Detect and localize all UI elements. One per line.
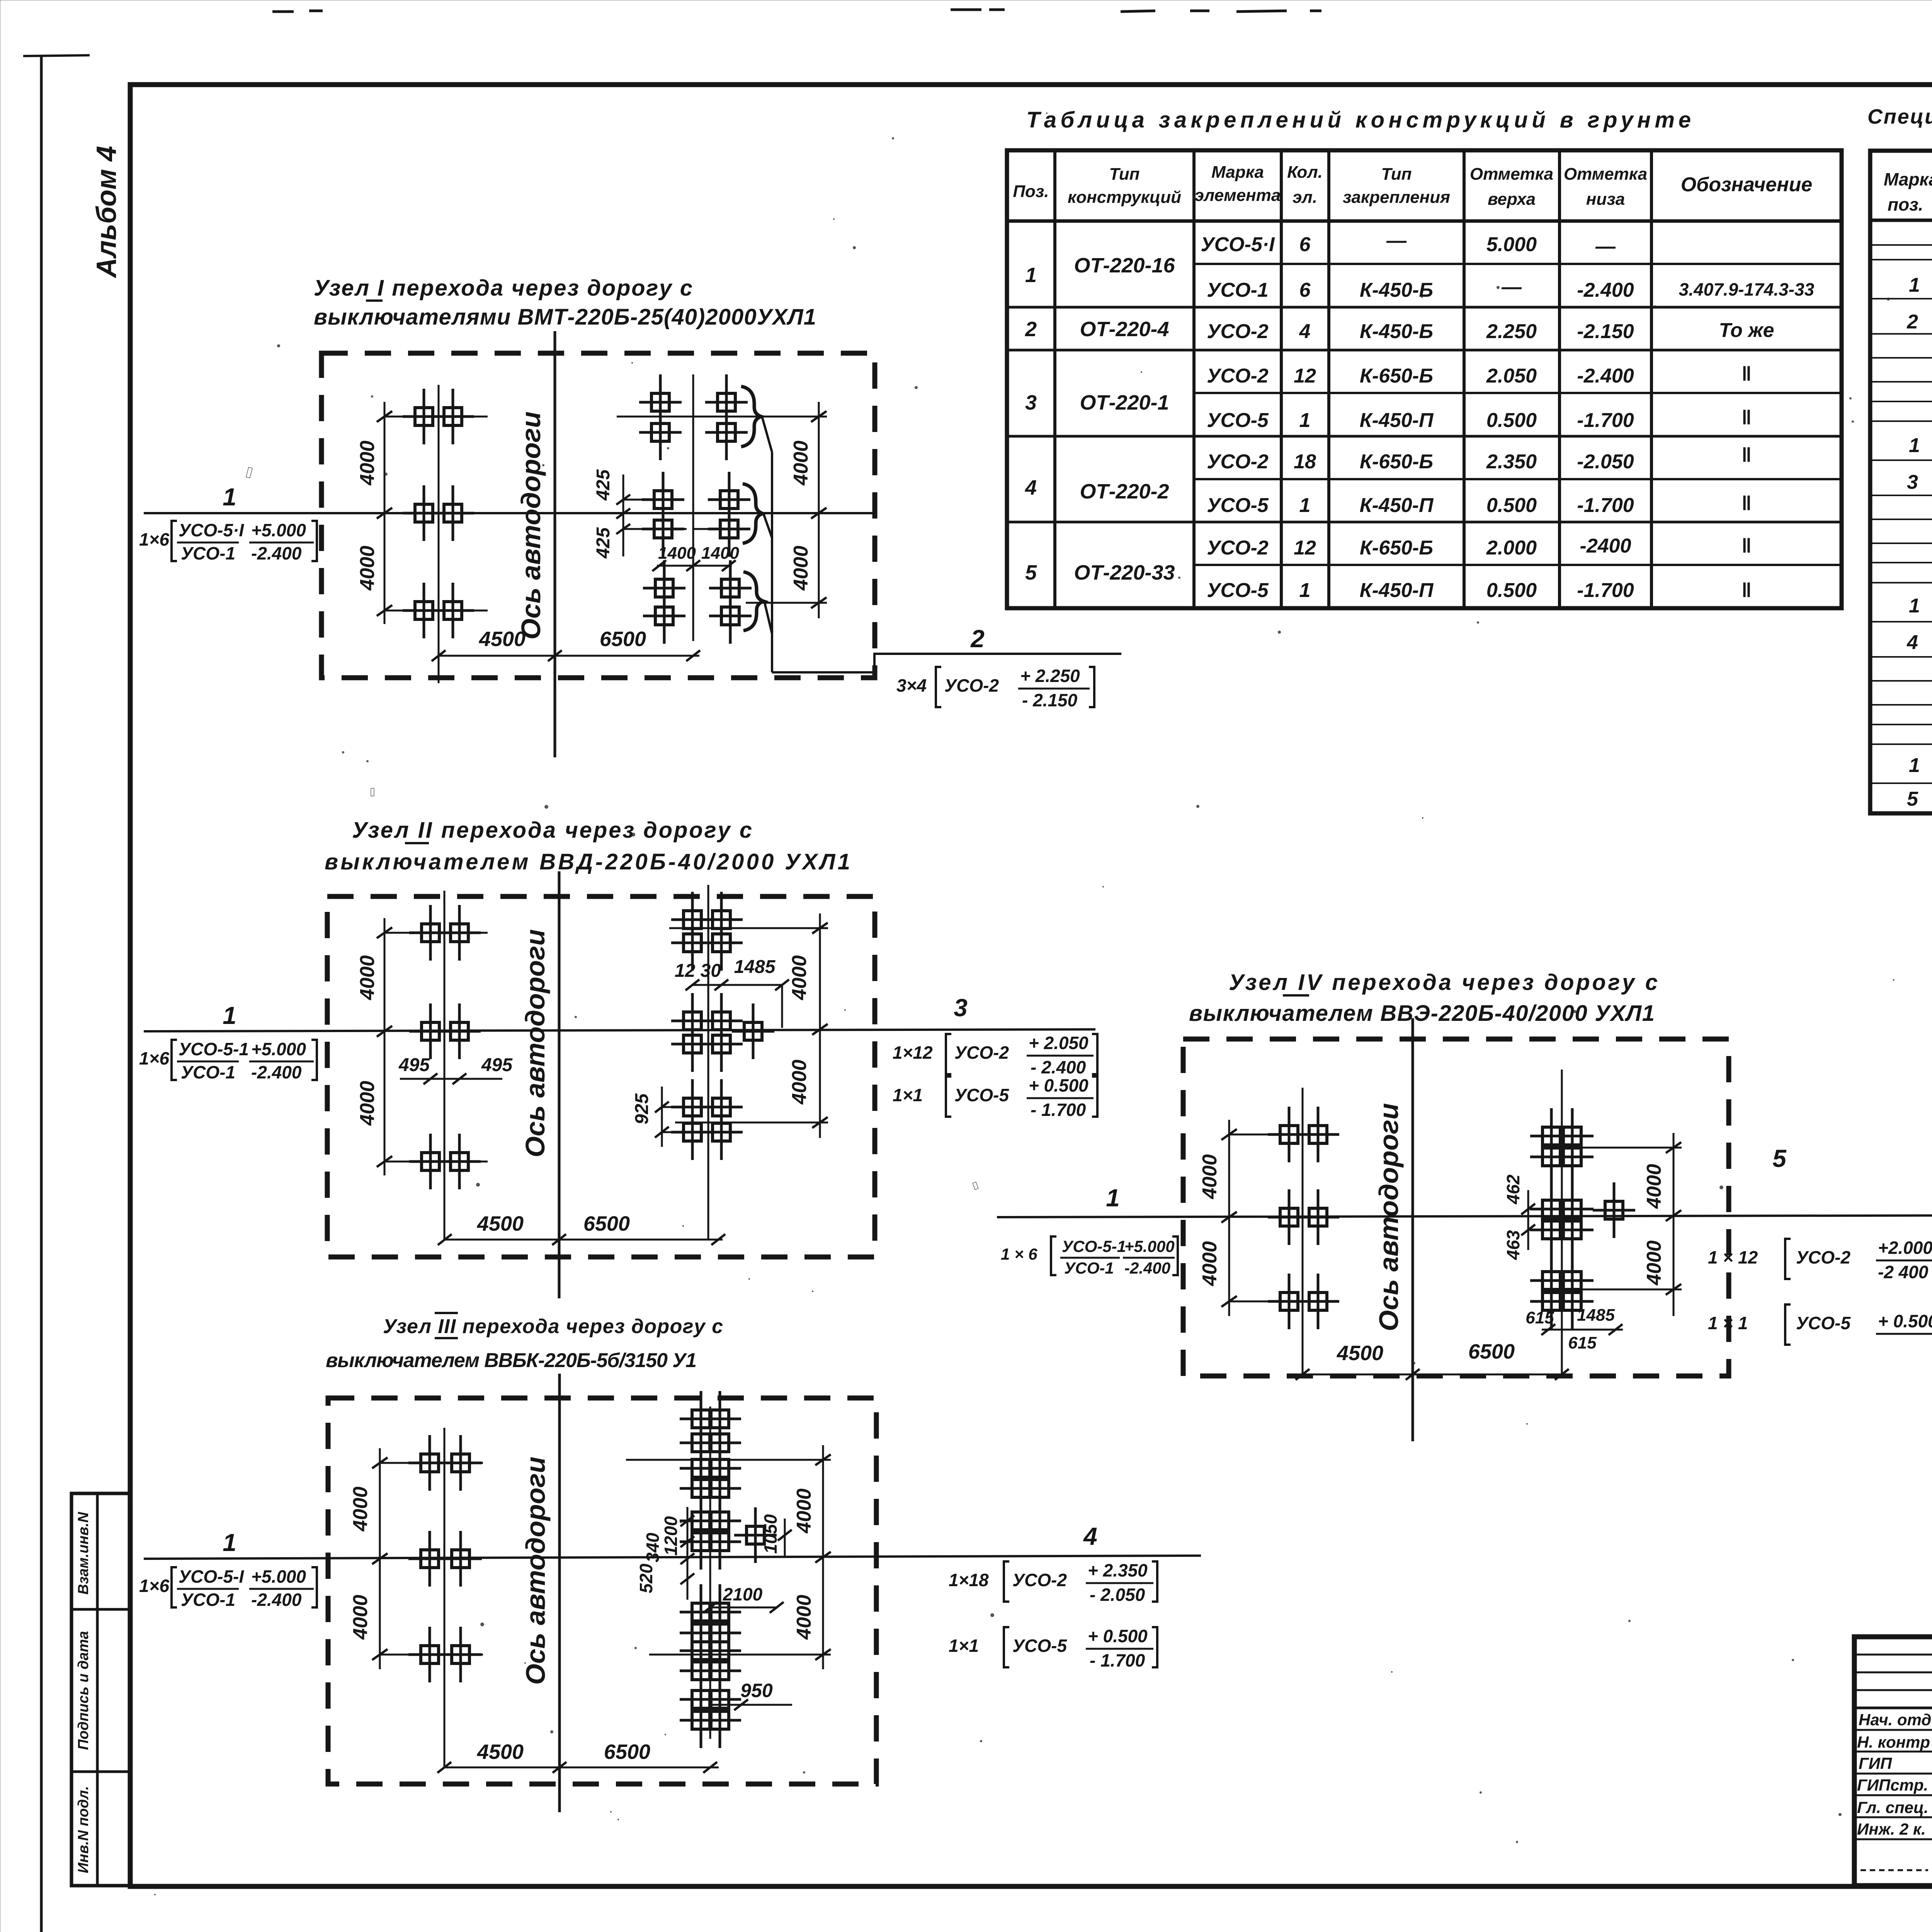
svg-text:4000: 4000 [356, 955, 379, 1000]
svg-text:4000: 4000 [1199, 1154, 1221, 1199]
svg-text:-2.400: -2.400 [1577, 365, 1634, 387]
svg-text:-2.400: -2.400 [251, 543, 302, 563]
specification section Узел II [1907, 390, 1932, 493]
node IV dim 462/463 ticks [1521, 1204, 1535, 1235]
svg-text:615: 615 [1526, 1308, 1554, 1327]
svg-text:УСО-2: УСО-2 [1207, 320, 1269, 343]
node II callout formula 1x12 [893, 1033, 1097, 1077]
svg-text:1×1: 1×1 [893, 1085, 923, 1105]
svg-text:‖: ‖ [1742, 444, 1752, 466]
node II dim 1230/1485 drop line [781, 985, 783, 1028]
svg-text:ОТ-220-2: ОТ-220-2 [1080, 480, 1169, 503]
svg-text:- 2.050: - 2.050 [1090, 1585, 1145, 1605]
node II single foundation on axis [732, 1003, 774, 1059]
fixing table headers [1013, 163, 1812, 209]
svg-text:низа: низа [1586, 190, 1625, 209]
node II right foundations bottom cluster [671, 1079, 714, 1135]
node II bottom dim ticks [438, 1234, 725, 1245]
node III road axis line [558, 1374, 561, 1812]
svg-text:Инв.N подл.: Инв.N подл. [75, 1786, 92, 1873]
svg-text:4000: 4000 [788, 955, 811, 1000]
node IV left dim ext bottom [1229, 1301, 1332, 1303]
node IV right dim ext top [1547, 1147, 1682, 1149]
node III left dim ext top [380, 1462, 483, 1464]
svg-text:Узел II перехода через дорогу: Узел II перехода через дорогу с [352, 818, 752, 843]
svg-text:УСО-2: УСО-2 [1207, 365, 1269, 387]
node II left dim line 4000/4000 [384, 918, 386, 1175]
title block name row lines [1854, 1730, 1932, 1839]
svg-text:- 1.700: - 1.700 [1031, 1100, 1086, 1120]
svg-text:4: 4 [1025, 476, 1037, 499]
svg-text:425: 425 [593, 527, 614, 559]
svg-text:3×4: 3×4 [896, 675, 927, 696]
svg-text:эл.: эл. [1293, 188, 1317, 207]
fixing table full row lines [1007, 307, 1842, 522]
svg-text:УСО-5: УСО-5 [1207, 579, 1269, 602]
node I dim 425/425 vertical [622, 474, 624, 556]
svg-text:Поз.: Поз. [1013, 182, 1049, 201]
svg-text:1 × 12: 1 × 12 [1708, 1247, 1758, 1267]
svg-text:Узел I перехода через дорогу: Узел I перехода через дорогу с [314, 276, 692, 301]
svg-text:12: 12 [1294, 537, 1316, 559]
svg-text:4000: 4000 [790, 546, 812, 591]
svg-text:1×6: 1×6 [139, 1576, 169, 1596]
svg-text:выключателем ВВБК-220Б-5б/315: выключателем ВВБК-220Б-5б/3150 У1 [326, 1349, 697, 1372]
svg-text:1×6: 1×6 [139, 529, 169, 549]
node III dim 2100 line [710, 1607, 777, 1609]
node III right dim ext bottom [649, 1654, 831, 1656]
strip divider h2 [71, 1770, 130, 1773]
svg-text:-2.400: -2.400 [251, 1062, 302, 1082]
svg-text:+5.000: +5.000 [1124, 1237, 1175, 1255]
node IV callout formula 1x1 [1708, 1304, 1932, 1345]
node II dim 495 495 line [400, 1078, 502, 1080]
node III bottom dim line 4500/6500 [444, 1767, 719, 1769]
node III right dim ticks [815, 1454, 831, 1660]
svg-text:1×6: 1×6 [139, 1048, 169, 1068]
svg-text:4500: 4500 [477, 1740, 524, 1764]
svg-text:-1.700: -1.700 [1577, 579, 1634, 602]
fixing table Поз column values [1025, 264, 1037, 584]
svg-text:4: 4 [1083, 1522, 1097, 1550]
node IV horizontal axis [997, 1215, 1932, 1217]
node II callout formula 1x1 [893, 1075, 1097, 1120]
node I dashed boundary [321, 353, 875, 678]
svg-text:К-450-Б: К-450-Б [1360, 320, 1433, 343]
node IV right foundation group vertical [1561, 1070, 1563, 1376]
node II left callout formula 1x6 [139, 1039, 317, 1082]
svg-text:2: 2 [1025, 318, 1037, 341]
svg-text:ОТ-220-1: ОТ-220-1 [1080, 391, 1169, 414]
svg-text:УСО-1: УСО-1 [181, 1062, 235, 1082]
node III single foundation 1050 [734, 1507, 777, 1563]
svg-text:2.250: 2.250 [1486, 320, 1537, 343]
svg-text:462: 462 [1503, 1174, 1523, 1204]
node I left dim ticks [377, 411, 392, 616]
svg-text:‖: ‖ [1742, 363, 1752, 385]
node IV numeral underline [1283, 994, 1309, 997]
svg-text:4000: 4000 [790, 440, 812, 486]
node IV left callout formula 1x6 [1001, 1236, 1178, 1277]
svg-text:1: 1 [1106, 1184, 1120, 1212]
fixing table Отметка верха values [1486, 233, 1537, 602]
svg-text:К-650-Б: К-650-Б [1360, 537, 1433, 559]
svg-text:Таблица закреплений конструк: Таблица закреплений конструкций в грунте [1026, 107, 1691, 133]
svg-text:К-650-Б: К-650-Б [1360, 451, 1433, 473]
svg-text:520: 520 [636, 1563, 656, 1593]
svg-text:выключателем ВВЭ-220Б-40/2000: выключателем ВВЭ-220Б-40/2000 УХЛ1 [1189, 1001, 1655, 1026]
svg-text:К-450-П: К-450-П [1360, 409, 1434, 432]
svg-text:ГИП: ГИП [1859, 1754, 1892, 1772]
node II bottom dim line 4500/6500 [445, 1239, 723, 1241]
svg-text:К-450-Б: К-450-Б [1360, 279, 1433, 301]
svg-text:УСО-2: УСО-2 [1012, 1570, 1067, 1590]
node I right foundation group vertical [692, 374, 694, 641]
svg-text:УСО-5·I: УСО-5·I [179, 520, 244, 540]
svg-text:1×1: 1×1 [949, 1636, 979, 1656]
node IV dim 615/1485/615 line [1542, 1329, 1623, 1331]
svg-text:—: — [1386, 230, 1407, 252]
svg-text:Марка,: Марка, [1884, 169, 1932, 189]
svg-text:-2 400: -2 400 [1878, 1262, 1929, 1282]
node II horizontal axis [144, 1029, 1095, 1031]
node II road axis line [558, 871, 561, 1298]
svg-text:‖: ‖ [1742, 535, 1752, 557]
node IV left foundation group vertical [1302, 1088, 1304, 1374]
node II right dim ticks [812, 923, 828, 1128]
svg-text:1×18: 1×18 [949, 1570, 989, 1590]
node IV right dim vertical 4000/4000 [1673, 1133, 1675, 1316]
svg-text:2100: 2100 [723, 1584, 763, 1604]
specification dense ruling (marks and right columns) [1870, 245, 1932, 789]
node III left foundations [408, 1435, 451, 1491]
svg-text:-2.150: -2.150 [1577, 320, 1634, 343]
node III right foundations pairs [680, 1391, 741, 1748]
node IV single foundation on axis [1593, 1182, 1635, 1238]
svg-text:18: 18 [1294, 451, 1316, 473]
svg-text:2.350: 2.350 [1486, 451, 1537, 473]
node II left foundations [409, 905, 452, 961]
svg-text:340: 340 [643, 1532, 663, 1562]
svg-text:закрепления: закрепления [1343, 188, 1450, 207]
svg-text:3: 3 [1907, 471, 1918, 493]
svg-text:1: 1 [1025, 264, 1037, 287]
svg-text:4000: 4000 [793, 1488, 815, 1534]
svg-text:Взам.инв.N: Взам.инв.N [75, 1512, 92, 1595]
svg-text:1×12: 1×12 [893, 1043, 933, 1063]
svg-text:Обозначение: Обозначение [1681, 173, 1813, 196]
specification header bottom [1870, 219, 1932, 222]
svg-text:12 30: 12 30 [675, 961, 721, 981]
svg-text:+5.000: +5.000 [251, 1566, 306, 1587]
svg-text:Кол.: Кол. [1287, 163, 1323, 182]
node I numeral underline [366, 299, 383, 302]
node III dim 950 line [710, 1704, 792, 1706]
svg-text:4500: 4500 [479, 628, 526, 651]
svg-text:Н. контр: Н. контр [1857, 1733, 1930, 1751]
node I bottom dim ticks [432, 650, 700, 661]
svg-text:4000: 4000 [349, 1486, 372, 1532]
svg-text:‖: ‖ [1742, 492, 1752, 515]
svg-text:2.000: 2.000 [1486, 537, 1537, 559]
specification headers [1884, 165, 1932, 214]
svg-text:Подпись и дата: Подпись и дата [75, 1631, 92, 1750]
svg-text:-2.400: -2.400 [1577, 279, 1634, 301]
node I right dim vertical 4000/4000 [818, 402, 820, 618]
svg-text:4000: 4000 [1643, 1240, 1665, 1286]
svg-text:Инж. 2 к.: Инж. 2 к. [1857, 1820, 1926, 1838]
svg-text:1: 1 [223, 1002, 236, 1029]
svg-text:- 2.150: - 2.150 [1022, 690, 1078, 710]
svg-text:4000: 4000 [349, 1595, 372, 1640]
svg-text:4000: 4000 [356, 440, 379, 486]
node II dim 925 ext lines [662, 1106, 692, 1108]
node III left callout formula 1x6 [139, 1566, 317, 1610]
svg-text:УСО-1: УСО-1 [181, 543, 235, 563]
svg-text:3: 3 [954, 994, 968, 1022]
node III left dim ticks [372, 1458, 388, 1660]
scan page left edge [40, 55, 43, 1932]
node I dim 1400 ticks [652, 560, 736, 571]
node III dim 950 tick [734, 1699, 748, 1710]
node II right dim ext top [669, 927, 828, 929]
node IV left foundations [1268, 1107, 1310, 1162]
svg-text:К-650-Б: К-650-Б [1360, 365, 1433, 387]
node II right foundation group vertical [707, 885, 709, 1240]
svg-text:‖: ‖ [1742, 579, 1752, 602]
node III callout formula 1x18 [949, 1560, 1157, 1605]
svg-text:+5.000: +5.000 [251, 520, 306, 540]
node I brace middle [743, 484, 763, 543]
svg-text:+ 0.500: + 0.500 [1029, 1075, 1088, 1095]
svg-text:+ 0.500: + 0.500 [1088, 1626, 1148, 1646]
node IV left dim line 4000/4000 [1228, 1120, 1230, 1316]
svg-text:4000: 4000 [356, 546, 379, 591]
node III bottom dim ticks [437, 1762, 717, 1773]
node I right dim ext bottom [746, 602, 827, 604]
node I brace bottom [743, 572, 764, 631]
fixing table Отметка низа values [1577, 235, 1634, 602]
svg-text:+ 0.500: + 0.500 [1878, 1311, 1932, 1331]
svg-text:5: 5 [1772, 1145, 1787, 1172]
svg-text:4000: 4000 [1643, 1164, 1665, 1209]
svg-text:-2400: -2400 [1580, 535, 1631, 557]
fixing table Тип конструкций values [1074, 254, 1175, 584]
svg-text:0.500: 0.500 [1486, 494, 1537, 517]
node III left dim line 4000/4000 [379, 1448, 381, 1669]
svg-text:-1.700: -1.700 [1577, 409, 1634, 432]
fixing table Тип закрепления values [1360, 230, 1434, 602]
svg-text:УСО-2: УСО-2 [944, 675, 999, 696]
svg-text:ОТ-220-33: ОТ-220-33 [1074, 561, 1175, 584]
svg-text:—: — [1595, 235, 1616, 258]
svg-text:4000: 4000 [1199, 1241, 1221, 1286]
node II dashed boundary [327, 896, 875, 1257]
svg-text:УСО-5: УСО-5 [1012, 1636, 1067, 1656]
svg-text:конструкций: конструкций [1068, 188, 1181, 207]
svg-text:3.407.9-174.3-33: 3.407.9-174.3-33 [1679, 279, 1815, 299]
node IV dashed boundary [1183, 1039, 1729, 1376]
strip divider h1 [71, 1608, 130, 1611]
node III dim 1050 [784, 1519, 786, 1557]
svg-text:1: 1 [1909, 274, 1920, 296]
scan noise dashes along top [272, 5, 1932, 12]
node IV bottom dim ticks [1296, 1369, 1569, 1380]
specification outer border [1870, 151, 1932, 813]
svg-text:УСО-2: УСО-2 [1207, 537, 1269, 559]
svg-text:УСО-2: УСО-2 [1796, 1247, 1850, 1267]
svg-text:Гл. спец.: Гл. спец. [1857, 1798, 1929, 1816]
node III dim stack ticks [680, 1515, 694, 1584]
svg-text:4000: 4000 [788, 1060, 811, 1105]
svg-text:425: 425 [593, 469, 614, 501]
node I brace connectors [762, 417, 772, 634]
node I right foundations bottom cluster [643, 560, 685, 616]
svg-text:6: 6 [1299, 233, 1311, 256]
svg-text:5: 5 [1907, 788, 1918, 810]
svg-text:УСО-2: УСО-2 [1207, 451, 1269, 473]
node I bottom dim line 4500/6500 [439, 655, 699, 657]
svg-text:6500: 6500 [600, 628, 646, 651]
node II dim 925 vertical [661, 1087, 663, 1147]
svg-text:6500: 6500 [1468, 1340, 1515, 1363]
node IV dim 615 ticks [1541, 1324, 1622, 1335]
svg-text:Марка: Марка [1211, 163, 1264, 182]
node I left dim ext top [384, 416, 488, 418]
node II dim 1230/1485 ticks [685, 980, 789, 990]
node I right dim ext top [617, 416, 827, 418]
svg-text:-1.700: -1.700 [1577, 494, 1634, 517]
svg-text:1400: 1400 [701, 544, 739, 563]
svg-text:Ось автодороги: Ось автодороги [520, 1457, 551, 1685]
svg-text:463: 463 [1503, 1230, 1523, 1260]
node I brace top [741, 386, 761, 447]
svg-text:4500: 4500 [477, 1212, 524, 1235]
fixing table Обозначение values [1679, 279, 1815, 602]
node I left foundations [403, 389, 445, 444]
svg-text:1485: 1485 [734, 957, 776, 977]
node III dim 1050 tick [778, 1530, 792, 1541]
svg-text:Тип: Тип [1381, 165, 1412, 184]
svg-text:элемента: элемента [1195, 186, 1281, 205]
node III dim 2100 ticks [703, 1602, 784, 1613]
svg-text:925: 925 [632, 1093, 652, 1124]
node I collector to callout 2 [772, 654, 1121, 672]
node III callout formula 1x1 [949, 1626, 1157, 1670]
node I dim 1400 1400 line [657, 565, 732, 567]
svg-text:1400: 1400 [658, 544, 696, 563]
node III numeral underline [435, 1337, 458, 1339]
svg-text:1200: 1200 [661, 1516, 681, 1556]
strip divider vertical [96, 1493, 99, 1886]
left margin strip box [71, 1493, 130, 1886]
svg-text:УСО-5: УСО-5 [1796, 1313, 1851, 1333]
svg-text:УСО-5: УСО-5 [954, 1085, 1009, 1105]
svg-text:1: 1 [1299, 409, 1311, 432]
node I dim 425 ticks [616, 495, 630, 534]
node IV left dim ticks [1221, 1129, 1237, 1307]
svg-text:6500: 6500 [604, 1740, 650, 1764]
node II right foundations top cluster [671, 892, 714, 947]
node I brace collector vertical [771, 452, 773, 672]
svg-text:УСО-1: УСО-1 [1064, 1259, 1114, 1277]
svg-text:6: 6 [1299, 279, 1311, 301]
svg-text:УСО-5-1: УСО-5-1 [1062, 1237, 1126, 1255]
node IV right foundations middle cluster [1530, 1181, 1573, 1237]
svg-text:3: 3 [1025, 391, 1037, 414]
svg-text:УСО-5·I: УСО-5·I [1201, 233, 1275, 256]
node II right dim ext bottom [675, 1122, 828, 1124]
svg-text:1: 1 [1909, 434, 1920, 457]
svg-text:верха: верха [1488, 190, 1536, 209]
svg-text:Нач. отд: Нач. отд [1859, 1711, 1931, 1729]
node I callout formula 3x4 [896, 666, 1094, 710]
svg-text:К-450-П: К-450-П [1360, 579, 1434, 602]
svg-text:2: 2 [1906, 311, 1918, 333]
node III horizontal axis [144, 1556, 1201, 1559]
svg-text:Ось автодороги: Ось автодороги [1374, 1103, 1404, 1331]
svg-text:- 2.400: - 2.400 [1031, 1057, 1086, 1077]
svg-text:6500: 6500 [583, 1212, 630, 1235]
node I left callout formula 1x6 [139, 520, 317, 563]
node II left dim ext top [384, 932, 488, 934]
svg-text:Альбом 4: Альбом 4 [91, 146, 122, 278]
svg-text:+ 2.350: + 2.350 [1088, 1560, 1148, 1580]
node IV bottom dim line 4500/6500 [1303, 1374, 1569, 1376]
node IV callout formula 1x12 [1708, 1238, 1932, 1282]
title block outer [1854, 1637, 1932, 1886]
svg-text:5.000: 5.000 [1486, 233, 1537, 256]
fixing table header bottom line [1007, 219, 1842, 223]
svg-text:—: — [1501, 276, 1522, 298]
node I right foundations top cluster [639, 374, 682, 430]
title block dashed signature underlines [1861, 1869, 1932, 1871]
svg-text:выключателями ВМТ-220Б-25(40)2: выключателями ВМТ-220Б-25(40)2000УХЛ1 [314, 304, 816, 330]
specification section Узел IV [1907, 711, 1932, 810]
node III left dim ext bottom [380, 1654, 483, 1656]
svg-text:ОТ-220-4: ОТ-220-4 [1080, 318, 1169, 341]
node II right foundations middle cluster [671, 993, 714, 1049]
svg-text:0.500: 0.500 [1486, 409, 1537, 432]
node III dashed boundary [328, 1398, 876, 1784]
specification section Узел III [1906, 551, 1932, 654]
svg-text:К-450-П: К-450-П [1360, 494, 1434, 517]
svg-text:+ 2.050: + 2.050 [1029, 1033, 1088, 1053]
svg-text:2: 2 [970, 625, 985, 653]
svg-text:4500: 4500 [1337, 1342, 1383, 1365]
svg-text:4000: 4000 [793, 1595, 815, 1640]
node I dim 425 ext lines [623, 499, 663, 501]
node II left dim ext bottom [384, 1161, 488, 1163]
svg-text:‖: ‖ [1742, 406, 1752, 429]
svg-text:ГИПстр.: ГИПстр. [1857, 1776, 1928, 1794]
svg-text:-2.050: -2.050 [1577, 451, 1634, 473]
svg-text:4: 4 [1299, 320, 1311, 343]
node III right dim vertical 4000/4000 [822, 1445, 824, 1669]
fixing table partial row lines [1194, 264, 1842, 565]
svg-text:УСО-5-1: УСО-5-1 [179, 1039, 249, 1059]
node IV right dim ticks [1666, 1142, 1681, 1295]
svg-text:950: 950 [740, 1680, 773, 1701]
svg-text:4000: 4000 [356, 1081, 379, 1126]
node I left dim line 4000/4000 [384, 402, 386, 624]
svg-text:1: 1 [1909, 754, 1920, 777]
node II dim 495 ticks [423, 1073, 466, 1084]
node II left dim ticks [377, 927, 392, 1167]
svg-text:Тип: Тип [1109, 165, 1140, 184]
svg-text:495: 495 [481, 1055, 513, 1075]
svg-text:1 × 6: 1 × 6 [1001, 1245, 1037, 1263]
